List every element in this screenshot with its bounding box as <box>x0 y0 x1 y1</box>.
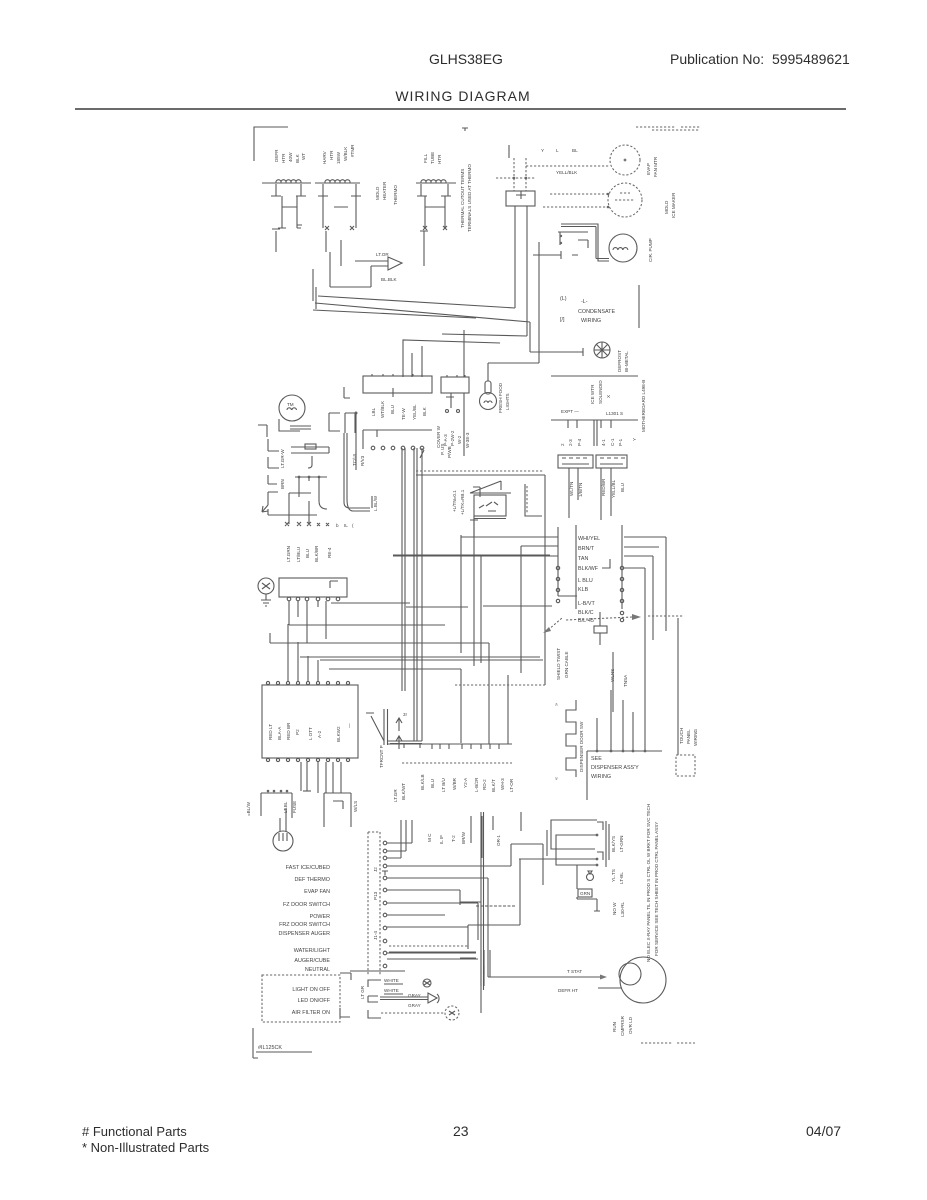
label FRESH FOOD LIGHT (rotated) <box>498 382 510 413</box>
svg-text:=BL/W: =BL/W <box>246 801 251 816</box>
svg-text:WT: WT <box>301 153 306 160</box>
connector strip body <box>368 832 380 975</box>
svg-text:BL: BL <box>572 148 578 153</box>
connector row lower <box>387 743 512 745</box>
label WHITE 1 <box>384 978 403 984</box>
svg-text:MOLD: MOLD <box>375 186 380 200</box>
dispenser bus <box>587 750 662 752</box>
pin wires mid <box>387 878 488 977</box>
pin drops <box>289 601 326 643</box>
svg-text:TM: TM <box>287 402 294 407</box>
corner to compressor line <box>489 950 491 977</box>
timer contacts <box>279 419 311 431</box>
label NO (rotated) <box>612 901 625 917</box>
bus wires entering from left <box>393 537 558 556</box>
svg-text:W/BR: W/BR <box>452 777 457 790</box>
motor M2 (ice maker, dashed) <box>608 183 642 217</box>
svg-text:LT.GR-W: LT.GR-W <box>280 449 285 468</box>
svg-text:1/B/TN: 1/B/TN <box>578 483 583 497</box>
svg-text:BLK/WF: BLK/WF <box>578 566 599 572</box>
label DEFROST THERMO (rotated) <box>617 350 629 372</box>
relay feed wire 2 <box>468 859 596 949</box>
motherboard pins <box>568 420 611 446</box>
bus corner drop <box>481 546 521 744</box>
svg-text:«: « <box>554 777 560 780</box>
wire to bus <box>268 509 317 515</box>
speaker cone <box>428 993 439 1003</box>
damper control (pot box) <box>291 444 329 468</box>
connector row labels (rotated) <box>420 774 514 792</box>
svg-text:FZ DOOR SWITCH: FZ DOOR SWITCH <box>283 902 330 908</box>
svg-text:RED/BR: RED/BR <box>601 478 606 496</box>
labels YEL/TN UV/TN (rotated) <box>569 482 583 497</box>
strip pin labels (rotated tiny) <box>373 867 378 940</box>
svg-text:DEFR HT: DEFR HT <box>558 988 578 993</box>
svg-text:[/]: [/] <box>560 317 565 323</box>
pin labels (rotated) <box>560 438 637 446</box>
labels between aux boxes (rotated) <box>283 801 358 813</box>
heater coil H1 (defrost heater) <box>262 180 311 183</box>
right bracket <box>470 487 480 520</box>
svg-text:NO ELEC X-RAY PANEL TIL IN PRO: NO ELEC X-RAY PANEL TIL IN PROD S CTRL O… <box>646 804 651 962</box>
wires below J2 <box>601 468 611 520</box>
thermostat pin row <box>295 476 327 478</box>
svg-text:BR/W: BR/W <box>461 831 466 844</box>
svg-text:OVR LD: OVR LD <box>628 1016 633 1034</box>
svg-text:LED ON/OFF: LED ON/OFF <box>298 998 331 1004</box>
label TOUCH PANEL (rotated) <box>679 728 698 746</box>
control board top pins <box>266 681 349 684</box>
motor M1 (evap fan, dashed) <box>610 145 640 175</box>
svg-text:DISPENSER AUGER: DISPENSER AUGER <box>278 931 330 937</box>
overload loop inner <box>556 835 598 865</box>
right area vertical <box>612 652 614 712</box>
double vertical <box>481 950 484 986</box>
switch ladder under H2 <box>318 184 361 230</box>
svg-text:TERMINALS USED AT THERMO: TERMINALS USED AT THERMO <box>467 164 472 232</box>
bottom-left corner mark <box>253 1028 258 1058</box>
wire bus 1 <box>289 624 445 626</box>
long vertical wires from connector <box>402 448 422 741</box>
dashed lead to sensor <box>381 1012 445 1014</box>
bus left drop <box>586 751 588 800</box>
shield twist labels (rotated) <box>556 648 569 680</box>
svg-text:WIRING: WIRING <box>693 728 698 746</box>
wires below board <box>301 762 341 793</box>
svg-text:MOTHERBOARD L498-B: MOTHERBOARD L498-B <box>641 380 646 432</box>
label EVAP FAN MOTOR (rotated) <box>646 156 658 177</box>
svg-text:TAN: TAN <box>578 556 588 562</box>
svg-text:T STAT: T STAT <box>567 969 582 974</box>
wire bus 2 <box>270 633 489 643</box>
svg-text:ICE MAKER: ICE MAKER <box>671 192 676 218</box>
svg-text:TUBE: TUBE <box>430 152 435 164</box>
svg-text:Y: Y <box>541 148 544 153</box>
timer box pins <box>287 597 340 601</box>
condensate note <box>560 296 615 324</box>
svg-text:DISPENSER DOOR SW: DISPENSER DOOR SW <box>579 721 584 772</box>
relay feed corner wire <box>387 844 543 885</box>
svg-text:WL/TN: WL/TN <box>569 482 574 496</box>
ground symbol circle <box>258 578 274 606</box>
svg-text:P/WB: P/WB <box>447 446 452 458</box>
svg-text:TFRCNT P: TFRCNT P <box>379 745 384 768</box>
wires above cluster <box>389 952 478 959</box>
svg-text:W-3E-3: W-3E-3 <box>465 432 470 448</box>
svg-text:23: 23 <box>453 1123 469 1139</box>
svg-text:SOLENOID: SOLENOID <box>598 380 603 404</box>
svg-text:BLK/LB: BLK/LB <box>420 774 425 790</box>
svg-text:LT-GRN: LT-GRN <box>619 835 624 852</box>
label RUN CAP (rotated) <box>612 1015 633 1036</box>
svg-text:HTR: HTR <box>281 153 286 163</box>
title rule <box>75 108 846 110</box>
right mesh rails <box>481 812 484 1013</box>
strip pins <box>383 841 387 968</box>
long note (rotated) <box>646 804 659 962</box>
svg-text:+L/TN=0.1: +L/TN=0.1 <box>452 490 457 512</box>
svg-text:YELL/BL: YELL/BL <box>611 479 616 498</box>
defrost timer motor <box>279 395 305 421</box>
svg-text:LT.GR: LT.GR <box>393 789 398 802</box>
chevrons <box>554 703 560 780</box>
connector rail right <box>621 525 623 609</box>
svg-text:T-2: T-2 <box>451 835 456 842</box>
compressor motor <box>619 957 666 1003</box>
door switch flag <box>470 481 542 537</box>
svg-text:(L): (L) <box>560 296 567 302</box>
control board box <box>262 685 358 758</box>
switch ladder under H3 <box>417 184 451 230</box>
svg-text:BLU: BLU <box>305 549 310 558</box>
touch panel feed <box>677 618 679 755</box>
svg-text:BLK/C: BLK/C <box>578 610 594 616</box>
svg-text:RED LT: RED LT <box>268 724 273 740</box>
svg-text:GLHS38EG: GLHS38EG <box>429 51 503 67</box>
harness drop wires <box>471 816 493 858</box>
bottom right signature lines <box>641 1042 695 1044</box>
connector arrow (plug) <box>388 257 402 270</box>
svg-text:—: — <box>347 723 352 728</box>
second label row (rotated) <box>427 831 501 846</box>
svg-text:KLB: KLB <box>578 587 589 593</box>
tiny row labels <box>336 523 354 528</box>
svg-text:FRZ DOOR SWITCH: FRZ DOOR SWITCH <box>279 922 330 928</box>
svg-text:LIGHTS: LIGHTS <box>505 393 510 410</box>
aux box left <box>261 793 292 818</box>
rail wires going right <box>624 537 666 751</box>
svg-text:EVAP FAN: EVAP FAN <box>304 889 330 895</box>
wire bus L3 <box>313 310 476 318</box>
svg-text:WHITE: WHITE <box>384 988 399 993</box>
svg-text:WHI/YEL: WHI/YEL <box>578 536 600 542</box>
dispenser door staircase <box>566 700 576 777</box>
hook mark <box>602 559 610 568</box>
wires below J1 <box>569 468 578 518</box>
svg-text:W/BLK: W/BLK <box>343 146 348 161</box>
dashed wire YELL/BLK to fan motor <box>526 165 610 167</box>
crossing wire <box>393 554 550 556</box>
svg-text:FUSE: FUSE <box>292 801 297 813</box>
svg-text:WIRING: WIRING <box>581 318 601 324</box>
label THERMAL CUTOUT (rotated long) <box>460 164 472 232</box>
junction node left of box1 <box>344 387 350 398</box>
dashed leads above terminal block <box>496 158 535 191</box>
relay pin labels (rotated) <box>611 835 624 884</box>
svg-text:WATER/LIGHT: WATER/LIGHT <box>294 948 331 954</box>
svg-text:BLK/WT: BLK/WT <box>401 783 406 800</box>
svg-text:BLA-A: BLA-A <box>277 726 282 740</box>
svg-text:TOUCH: TOUCH <box>679 728 684 744</box>
harness housing box 1 <box>363 374 432 397</box>
svg-text:40W: 40W <box>288 152 293 162</box>
svg-text:LT.OR: LT.OR <box>376 252 389 257</box>
svg-text:ICE WTR: ICE WTR <box>590 384 595 404</box>
see dispenser note <box>591 756 639 780</box>
svg-text:BLK: BLK <box>295 153 300 163</box>
svg-text:P-1: P-1 <box>618 438 623 446</box>
svg-text:THERMO: THERMO <box>393 185 398 205</box>
connector rail left pair <box>558 525 577 609</box>
svg-text:RED BR: RED BR <box>286 722 291 740</box>
rail pins left <box>556 566 559 602</box>
svg-text:BLK/YS: BLK/YS <box>611 836 616 852</box>
labels WLNS TNSA (rotated) <box>610 669 628 687</box>
svg-text:»: » <box>554 703 560 706</box>
labels RED/BR YELL/BL BLU (rotated) <box>601 478 625 498</box>
harness label cols (rotated) <box>436 425 470 448</box>
svg-text:A-2: A-2 <box>317 730 322 738</box>
svg-text:HARV: HARV <box>322 150 327 164</box>
svg-text:185W: 185W <box>336 151 341 164</box>
wire bus L4 <box>442 206 527 336</box>
label WHITE 2 <box>384 988 403 994</box>
dashed dispenser boundary <box>455 684 545 686</box>
svg-text:TNSA: TNSA <box>623 674 628 687</box>
svg-text:DEFROST: DEFROST <box>617 350 622 372</box>
mesh horizontals <box>460 902 484 975</box>
wire from terminal drop to lamp <box>488 363 539 381</box>
svg-text:BLK/BR: BLK/BR <box>314 545 319 562</box>
right vertical <box>461 518 474 666</box>
svg-text:YELL/BLK: YELL/BLK <box>556 170 578 175</box>
pin row with x marks <box>285 522 329 526</box>
heater coil H3 (mullion heater) <box>416 180 456 183</box>
label ICE MAKER (rotated) <box>664 192 676 218</box>
label DEFROST HEATER (rotated) <box>274 149 306 163</box>
label (rotated) near bundle <box>452 489 465 515</box>
svg-text:J1-4: J1-4 <box>373 931 378 940</box>
label TC/UL (rotated) <box>352 452 365 466</box>
svg-text:P-4: P-4 <box>577 438 582 446</box>
relay box <box>533 232 588 259</box>
touch panel dashed box <box>676 755 695 776</box>
long vertical at left <box>416 475 545 685</box>
control board bottom pins <box>266 758 349 761</box>
svg-text:BLU: BLU <box>620 483 625 492</box>
wire across top <box>363 430 432 449</box>
rail pins right <box>620 566 623 621</box>
resistor component <box>594 612 607 645</box>
svg-text:Y2-A: Y2-A <box>463 777 468 788</box>
svg-text:MOLD: MOLD <box>664 200 669 214</box>
svg-text:L OTT: L OTT <box>308 727 313 740</box>
top border tick <box>462 128 468 131</box>
note text column (rotated) <box>375 181 398 205</box>
top-right dashed border <box>636 127 700 130</box>
svg-text:4-1: 4-1 <box>601 439 606 446</box>
timer box <box>279 578 347 597</box>
svg-text:L-B/VT: L-B/VT <box>578 601 595 607</box>
svg-text:RUN: RUN <box>612 1022 617 1032</box>
junction dots <box>513 177 516 180</box>
svg-text:POWER: POWER <box>310 914 330 920</box>
relay box K1 <box>329 413 355 433</box>
svg-text:BRN: BRN <box>280 479 285 489</box>
label cols LT.GR (rotated) <box>393 783 406 802</box>
svg-text:W-2: W-2 <box>457 435 462 444</box>
svg-text:+L/TK=RB.1: +L/TK=RB.1 <box>460 489 465 515</box>
svg-text:M C: M C <box>427 833 432 842</box>
wire drop from relay <box>538 242 540 363</box>
wire bus 3 <box>300 657 543 660</box>
svg-text:P13: P13 <box>373 891 378 900</box>
arrow head <box>262 505 268 512</box>
svg-text:DISPENSER ASS'Y: DISPENSER ASS'Y <box>591 765 639 771</box>
dashed wires to ice maker <box>543 194 608 207</box>
connector pin labels (rotated) <box>440 444 452 458</box>
svg-text:COVER W: COVER W <box>436 425 441 448</box>
aux box right <box>324 793 351 827</box>
svg-text:(: ( <box>352 523 354 528</box>
terminal block box <box>506 191 535 206</box>
control board labels (rotated) <box>268 722 352 742</box>
heater coil H2 (harvest heater) <box>315 180 360 183</box>
svg-text:PANEL: PANEL <box>686 729 691 744</box>
svg-text:EVAP: EVAP <box>646 163 651 175</box>
wire bus L1 <box>318 206 515 308</box>
connector J1 <box>558 455 593 468</box>
svg-text:YEL/BL: YEL/BL <box>412 404 417 420</box>
svg-text:FAST ICE/CUBED: FAST ICE/CUBED <box>286 865 330 871</box>
short rail <box>521 812 547 856</box>
svg-text:# Functional Parts: # Functional Parts <box>82 1124 187 1139</box>
svg-text:P-2W-2: P-2W-2 <box>450 430 455 446</box>
connector pin row <box>371 446 424 458</box>
box 1 pin labels (rotated) <box>371 400 427 420</box>
svg-text:HTR: HTR <box>329 150 334 160</box>
svg-text:P-A-3: P-A-3 <box>443 434 448 446</box>
svg-text:AIR FILTER ON: AIR FILTER ON <box>292 1010 330 1016</box>
thermostat drops <box>299 477 327 509</box>
motherboard top edge <box>551 375 638 377</box>
svg-text:GRAY: GRAY <box>408 1003 421 1008</box>
svg-text:WH-3: WH-3 <box>500 778 505 790</box>
defrost thermostat (star circle) <box>594 342 610 358</box>
svg-text:P2: P2 <box>295 729 300 735</box>
svg-text:LT.GRN: LT.GRN <box>286 546 291 562</box>
pin labels above <box>541 148 578 153</box>
svg-text:RD-2: RD-2 <box>482 779 487 790</box>
svg-text:FILL: FILL <box>423 153 428 163</box>
switch ladder under H1 <box>271 184 306 228</box>
cold control ladder <box>289 493 311 525</box>
svg-text:#TMR: #TMR <box>350 144 355 157</box>
svg-text:DEF THERMO: DEF THERMO <box>294 877 330 883</box>
harness housing box 2 <box>441 330 469 456</box>
svg-text:BLU: BLU <box>390 405 395 414</box>
svg-text:RE-4: RE-4 <box>327 547 332 558</box>
svg-text:L-B/2R: L-B/2R <box>474 777 479 792</box>
svg-text:OR-1: OR-1 <box>496 835 501 846</box>
svg-text:BRN/T: BRN/T <box>578 546 595 552</box>
svg-text:CIR. PUMP: CIR. PUMP <box>648 238 653 262</box>
svg-text:AUGER/CUBE: AUGER/CUBE <box>294 958 330 964</box>
svg-text:J2: J2 <box>373 867 378 872</box>
alarm LED circle <box>423 979 431 987</box>
overload loop outer <box>551 820 597 849</box>
dashed plug arrows <box>548 618 562 630</box>
svg-text:THERMAL CUTOUT TERMS: THERMAL CUTOUT TERMS <box>460 169 465 228</box>
wire label columns (rotated) <box>286 545 332 562</box>
svg-text:* Non-Illustrated Parts: * Non-Illustrated Parts <box>82 1140 210 1155</box>
svg-text:TE-W: TE-W <box>401 408 406 420</box>
svg-text:Y: Y <box>632 438 637 441</box>
svg-text:LBL: LBL <box>371 407 376 416</box>
svg-text:LT/BLU: LT/BLU <box>296 547 301 562</box>
dashed option box <box>262 975 340 1022</box>
left lead <box>508 145 510 158</box>
svg-text:IL IF: IL IF <box>439 835 444 844</box>
svg-text:R/V3: R/V3 <box>360 455 365 466</box>
feeds into box 1 <box>403 340 500 377</box>
label HARVEST HEATER (rotated) <box>322 144 355 164</box>
svg-text:LT-BL: LT-BL <box>619 872 624 884</box>
wire H3 leg <box>420 231 428 266</box>
option labels <box>292 987 331 1016</box>
part number label <box>256 1045 312 1052</box>
wires into board top <box>288 624 318 681</box>
svg-text:LT GR: LT GR <box>360 985 365 999</box>
svg-text:EXPT —: EXPT — <box>561 409 579 414</box>
svg-text:YL.TS: YL.TS <box>611 869 616 882</box>
relay pins <box>597 822 603 860</box>
svg-text:IL: IL <box>344 523 348 528</box>
svg-text:HEATER: HEATER <box>382 181 387 200</box>
sensor circle <box>445 1006 459 1020</box>
svg-text:CONDENSATE: CONDENSATE <box>578 309 615 315</box>
svg-text:LT-OR: LT-OR <box>509 778 514 792</box>
water valve coil <box>273 808 293 851</box>
svg-text:2-3: 2-3 <box>568 439 573 446</box>
wires into plug <box>330 252 388 287</box>
svg-text:#IL125CK: #IL125CK <box>258 1045 282 1051</box>
heavy wire to condenser fan <box>561 224 609 261</box>
pin wires lower <box>387 915 478 959</box>
lamp (french door light) <box>480 381 497 410</box>
label MULLION HEATER (rotated) <box>423 152 442 164</box>
svg-text:C-1: C-1 <box>610 438 615 446</box>
svg-text:NO W: NO W <box>612 902 617 915</box>
wire H1 to node <box>272 229 280 252</box>
connector fingers <box>368 980 381 1018</box>
svg-text:FRESH FOOD: FRESH FOOD <box>498 382 503 413</box>
svg-text:NEUTRAL: NEUTRAL <box>305 967 330 973</box>
svg-text:GRN: GRN <box>580 891 590 896</box>
svg-text:SEE: SEE <box>591 756 602 762</box>
dispenser selector switch <box>366 709 422 749</box>
svg-text:FOR SERVICE SEE TECH SHEET IN: FOR SERVICE SEE TECH SHEET IN PROD CTRL … <box>654 822 659 956</box>
